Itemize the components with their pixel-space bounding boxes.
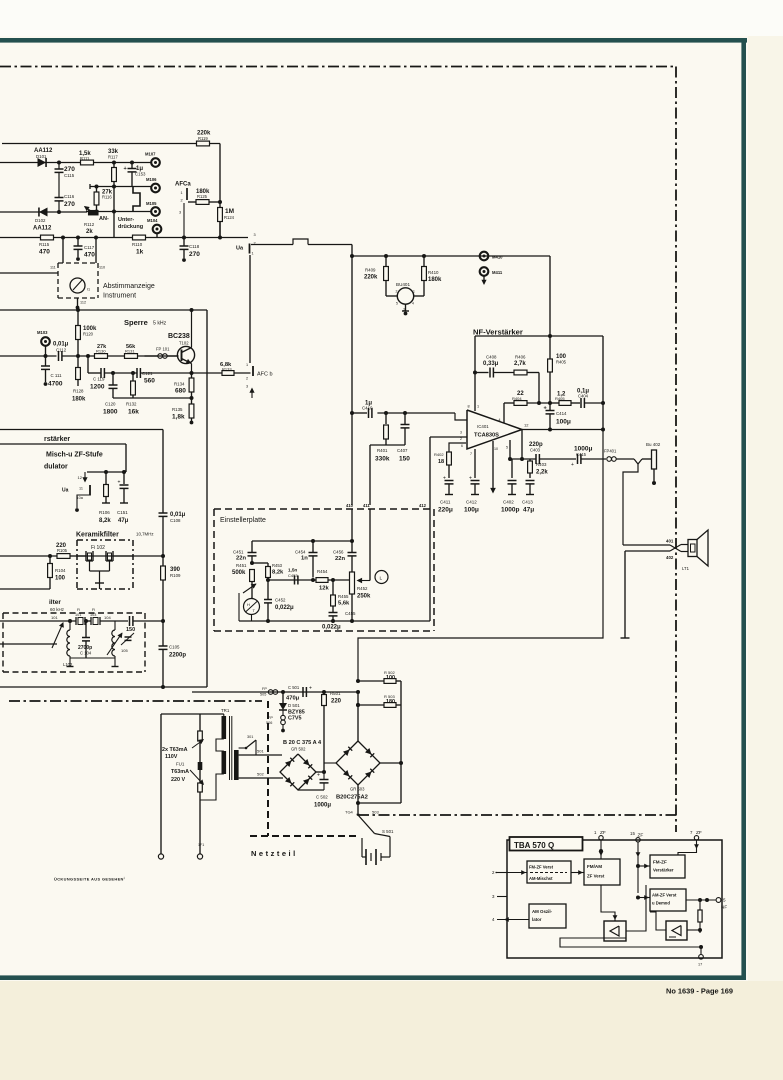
svg-text:R405: R405 — [555, 396, 565, 401]
svg-text:180k: 180k — [72, 397, 86, 403]
wire x401 column — [399, 681, 403, 803]
svg-text:FP401: FP401 — [604, 449, 617, 454]
svg-text:Ua: Ua — [62, 488, 69, 494]
wire top inner rail — [252, 539, 352, 543]
wire AM bottom — [70, 657, 115, 659]
svg-text:C 119: C 119 — [93, 377, 105, 382]
wire output coupling row — [510, 458, 536, 460]
svg-text:B20C275A2: B20C275A2 — [336, 795, 368, 801]
wire AFC row — [188, 201, 196, 203]
connector Ua lower — [62, 485, 90, 500]
svg-text:TG4: TG4 — [345, 810, 354, 815]
svg-text:220 V: 220 V — [171, 777, 185, 783]
resistor R403 — [528, 459, 549, 478]
wire AM row2 in — [0, 643, 57, 645]
resistor R131 — [125, 344, 138, 358]
wire NF input column x352 — [351, 245, 353, 506]
svg-text:1,8k: 1,8k — [172, 414, 185, 421]
pin 4 — [492, 917, 529, 922]
capacitor C111 — [41, 356, 63, 388]
svg-text:501: 501 — [257, 749, 264, 754]
svg-text:105: 105 — [121, 648, 128, 653]
capacitor C117 — [74, 238, 96, 261]
svg-text:L102: L102 — [63, 662, 73, 667]
wire feedback row B — [113, 397, 192, 399]
resistor R503 — [384, 694, 401, 707]
TBA570 title box — [510, 837, 583, 851]
resistor R134 — [174, 373, 194, 398]
capacitor C411 — [438, 476, 454, 514]
wire pin 5 NF — [686, 898, 727, 910]
svg-text:GR 502: GR 502 — [291, 747, 306, 752]
capacitor C456 — [333, 550, 357, 573]
capacitor C454 — [295, 541, 318, 578]
svg-text:R453: R453 — [272, 563, 283, 568]
wire left diode row — [0, 211, 87, 213]
wire pin6 stub — [449, 443, 466, 452]
circle L marker — [375, 571, 388, 584]
limiter block B — [666, 921, 687, 940]
wire limiter A out — [626, 885, 646, 931]
wire y803 — [358, 802, 401, 804]
svg-text:FM-ZF: FM-ZF — [653, 860, 667, 865]
svg-text:100μ: 100μ — [556, 419, 571, 426]
node C153 top — [130, 161, 134, 165]
capacitor C153 — [124, 163, 147, 187]
svg-text:C456: C456 — [333, 550, 344, 555]
svg-text:Fi: Fi — [92, 608, 95, 612]
block FM AM ZF Verst — [584, 859, 620, 885]
node R120 top — [76, 308, 80, 312]
svg-text:dulator: dulator — [44, 464, 68, 471]
resistor R133 — [220, 362, 251, 375]
svg-text:Misch-u ZF-Stufe: Misch-u ZF-Stufe — [46, 452, 103, 459]
resistor R401 — [375, 413, 390, 463]
fuse FU1 body — [198, 762, 203, 770]
svg-text:6: 6 — [461, 444, 463, 448]
svg-text:1: 1 — [413, 290, 415, 294]
misch box top — [0, 444, 126, 472]
svg-text:4: 4 — [412, 302, 414, 306]
svg-text:C453: C453 — [288, 573, 298, 578]
wire speaker feed 401 — [623, 545, 681, 552]
svg-text:C118: C118 — [189, 244, 200, 249]
wire bottom bus — [560, 933, 703, 949]
node rail R404 — [548, 401, 552, 405]
svg-text:2200p: 2200p — [169, 653, 186, 659]
wire output drop — [520, 430, 524, 462]
wire right column R124 — [219, 144, 221, 238]
svg-text:47μ: 47μ — [118, 518, 129, 524]
svg-text:470μ: 470μ — [286, 696, 300, 702]
netzteil dashed boundary bottom — [250, 835, 360, 837]
label dulator — [44, 464, 68, 471]
lamp ground — [402, 304, 409, 315]
svg-text:110: 110 — [99, 266, 105, 270]
svg-text:M106: M106 — [146, 177, 157, 182]
label Abstimmanzeige Instrument — [103, 283, 155, 300]
svg-text:R115: R115 — [39, 242, 50, 247]
svg-text:FP 101: FP 101 — [156, 347, 170, 352]
svg-text:C402: C402 — [503, 500, 514, 505]
node C118 — [182, 236, 186, 240]
svg-text:AM Oszil-: AM Oszil- — [532, 909, 553, 914]
transformer secondary winding — [234, 750, 239, 780]
svg-text:C455: C455 — [345, 611, 356, 616]
svg-text:C116: C116 — [64, 194, 75, 199]
svg-text:R131: R131 — [125, 348, 135, 353]
svg-text:2: 2 — [396, 290, 398, 294]
capacitor C118 — [180, 238, 201, 262]
transformer primary winding — [222, 716, 227, 774]
resistor R409 — [364, 256, 388, 296]
svg-text:220μ: 220μ — [438, 507, 453, 514]
chassis dash-dot boundary lower — [358, 814, 676, 816]
svg-text:L: L — [380, 576, 383, 582]
labels pins 410 411 412 — [346, 503, 427, 508]
ferrite bead FP101 — [145, 347, 179, 359]
svg-text:C408: C408 — [486, 355, 497, 360]
svg-text:330k: 330k — [375, 456, 390, 463]
svg-text:111: 111 — [50, 266, 56, 270]
block FM-ZF Verstaerker — [650, 855, 685, 878]
svg-text:R404: R404 — [512, 396, 522, 401]
potentiometer R112 — [84, 206, 98, 235]
capacitor C403 — [529, 442, 576, 464]
AM filter dashed box — [3, 613, 145, 672]
svg-text:R454: R454 — [317, 569, 328, 574]
misch box pin row — [87, 471, 126, 473]
wire 220k top rail — [2, 143, 220, 145]
label Einstellerplatte — [220, 517, 266, 524]
svg-text:R133: R133 — [222, 367, 232, 372]
svg-text:Einstellerplatte: Einstellerplatte — [220, 517, 266, 524]
netzteil dashed boundary vertical — [267, 701, 269, 836]
label 101 104 — [51, 615, 111, 620]
label meter pins — [50, 266, 105, 305]
capacitor C112 — [53, 342, 179, 362]
lamp BU401 — [386, 282, 424, 312]
wire into meter box — [0, 272, 58, 274]
filter Fi102 common — [90, 571, 110, 589]
capacitor C451 — [233, 541, 257, 563]
svg-text:FP: FP — [268, 716, 273, 720]
resistor internal — [698, 898, 702, 933]
svg-text:0,022μ: 0,022μ — [275, 605, 294, 611]
svg-text:C 502: C 502 — [316, 795, 328, 800]
wire Ua pin2 to NF input — [251, 239, 352, 245]
wire speaker feed 402 — [625, 545, 688, 552]
capacitor C121 — [137, 368, 155, 385]
wire 412 column — [429, 437, 431, 621]
svg-text:u Demod: u Demod — [652, 901, 670, 906]
svg-text:D101: D101 — [36, 154, 47, 159]
wire suppression lower row — [86, 211, 152, 213]
fuse F1 — [198, 731, 203, 741]
svg-text:M410: M410 — [492, 255, 503, 260]
svg-text:1: 1 — [477, 405, 479, 409]
resistor R410 — [422, 256, 442, 296]
svg-text:15: 15 — [630, 831, 635, 836]
TBA bottom pin — [698, 947, 703, 967]
svg-text:NF: NF — [721, 905, 727, 910]
svg-text:150: 150 — [399, 456, 410, 463]
svg-text:2k: 2k — [86, 229, 93, 235]
resistor R116 — [94, 187, 113, 212]
resistor R119 — [197, 131, 212, 146]
resistor R453 — [266, 563, 284, 580]
pin 1 ZF — [594, 830, 606, 856]
svg-text:AM-ZF Verst: AM-ZF Verst — [652, 893, 677, 898]
svg-text:R410: R410 — [428, 270, 439, 275]
svg-text:5 kHz: 5 kHz — [153, 321, 167, 327]
resistor R455 — [331, 580, 350, 612]
svg-text:411: 411 — [363, 503, 370, 508]
svg-text:505: 505 — [260, 693, 266, 697]
svg-text:Abstimmanzeige: Abstimmanzeige — [103, 283, 155, 290]
svg-text:+: + — [317, 773, 320, 779]
test point M411 — [480, 267, 503, 285]
svg-text:100: 100 — [386, 675, 395, 681]
svg-text:R125: R125 — [197, 194, 208, 199]
resistor R402 — [434, 452, 451, 478]
svg-text:R119: R119 — [198, 136, 208, 141]
svg-text:1: 1 — [246, 363, 248, 367]
svg-text:17: 17 — [698, 963, 702, 967]
wire pin8 column — [473, 336, 477, 411]
op-amp IC401 TCA830S — [460, 405, 529, 457]
capacitor C151 — [117, 472, 129, 524]
TBA570 outer box — [507, 840, 722, 958]
svg-text:110V: 110V — [165, 754, 178, 760]
svg-text:C411: C411 — [440, 500, 451, 505]
svg-text:270: 270 — [64, 166, 75, 173]
svg-text:T102: T102 — [179, 341, 189, 346]
svg-text:R401: R401 — [377, 448, 388, 453]
svg-text:D 501: D 501 — [288, 703, 300, 708]
node R409 top — [384, 254, 388, 258]
chassis dash-dot boundary mains — [9, 700, 262, 702]
svg-text:402: 402 — [666, 555, 674, 560]
svg-text:R409: R409 — [365, 268, 376, 273]
meter ground — [76, 298, 80, 309]
svg-text:H: H — [247, 602, 250, 607]
block AM Oszillator — [529, 904, 566, 928]
svg-text:Verstärker: Verstärker — [653, 868, 674, 873]
wire pin5 stub — [508, 440, 512, 461]
svg-text:C105: C105 — [169, 645, 180, 650]
wire detector top row — [0, 162, 151, 164]
svg-text:M411: M411 — [492, 270, 503, 275]
svg-text:M107: M107 — [145, 152, 156, 157]
svg-text:112: 112 — [80, 301, 86, 305]
wire meter pin 110 — [94, 236, 98, 264]
wire R401 C407 bottoms — [370, 444, 405, 446]
wire y589 row — [0, 588, 50, 590]
label NF-Verstaerker — [473, 328, 523, 337]
svg-text:LT1: LT1 — [682, 566, 690, 571]
svg-text:18: 18 — [438, 459, 444, 465]
svg-text:C 111: C 111 — [51, 373, 63, 378]
label filter 60kHz — [49, 599, 65, 612]
svg-text:180k: 180k — [428, 277, 442, 283]
wire into AM-ZF — [636, 893, 650, 900]
svg-text:R134: R134 — [174, 382, 185, 387]
capacitor C502 — [314, 763, 331, 809]
ferrite bead FP401 — [604, 449, 634, 462]
svg-text:AFCa: AFCa — [175, 182, 191, 188]
svg-text:ilter: ilter — [49, 599, 61, 606]
svg-text:5: 5 — [506, 446, 508, 450]
svg-text:C 501: C 501 — [288, 685, 300, 690]
wire GR503 bottom — [356, 785, 360, 813]
filter Fi103 — [85, 608, 100, 625]
resistor R105 — [56, 543, 86, 558]
svg-text:C413: C413 — [522, 500, 533, 505]
circle H T marker — [244, 599, 260, 615]
label verstaerker — [44, 436, 70, 443]
svg-text:8,2k: 8,2k — [272, 570, 284, 576]
wire 7ZF link — [678, 851, 697, 855]
svg-text:500k: 500k — [232, 570, 246, 576]
svg-text:1800: 1800 — [103, 409, 118, 416]
svg-text:4700: 4700 — [48, 381, 63, 388]
svg-text:R455: R455 — [338, 594, 349, 599]
svg-text:BU401: BU401 — [396, 282, 410, 287]
resistor R132 — [126, 371, 139, 416]
wire bridge plus — [316, 770, 326, 774]
svg-text:C407: C407 — [397, 448, 408, 453]
node base join — [86, 354, 90, 358]
svg-text:180: 180 — [386, 699, 395, 705]
svg-text:401: 401 — [666, 539, 674, 544]
svg-text:C415: C415 — [576, 452, 587, 457]
svg-text:12: 12 — [78, 475, 83, 480]
resistor R404 — [512, 391, 550, 405]
svg-text:3: 3 — [460, 431, 462, 435]
wire AM mid — [100, 620, 128, 622]
svg-text:7: 7 — [470, 452, 472, 456]
svg-text:C120: C120 — [105, 402, 116, 407]
svg-text:470: 470 — [39, 249, 50, 256]
pin 12 arrow — [78, 472, 88, 483]
wire supply row y256 — [352, 255, 550, 257]
page number text — [666, 987, 733, 996]
svg-text:R106: R106 — [99, 510, 110, 515]
svg-text:3: 3 — [254, 233, 256, 237]
capacitor C410 — [350, 401, 373, 419]
resistor R454 — [316, 569, 329, 592]
svg-text:410: 410 — [346, 503, 354, 508]
svg-text:R403: R403 — [536, 462, 547, 467]
node R501 top — [322, 690, 326, 694]
svg-text:ÜCKUNGSSEITE AUS GESEHENⁱ: ÜCKUNGSSEITE AUS GESEHENⁱ — [54, 875, 125, 882]
node D102 C116 — [57, 210, 61, 214]
resistor R405 vertical 100 — [548, 336, 567, 403]
svg-text:R110: R110 — [132, 242, 143, 247]
svg-text:C7V5: C7V5 — [288, 716, 302, 722]
svg-text:R109: R109 — [170, 573, 181, 578]
svg-text:R120: R120 — [83, 332, 94, 337]
node R106 top — [104, 470, 108, 474]
svg-text:C117: C117 — [84, 245, 95, 250]
potentiometer R452 — [350, 572, 372, 621]
resistor R106 — [99, 472, 111, 524]
wire mains top — [161, 714, 224, 716]
bridge rectifier GR503 — [336, 741, 380, 801]
svg-text:R112: R112 — [84, 222, 95, 227]
wire op-amp input row — [377, 413, 467, 420]
wire NF top rail — [475, 335, 603, 337]
svg-text:C151: C151 — [117, 510, 128, 515]
resistor R406 — [514, 355, 539, 375]
capacitor C414 — [544, 403, 571, 430]
wire output row y430 — [522, 428, 605, 432]
resistor R125 — [196, 189, 222, 204]
pin 2 — [492, 870, 507, 875]
capacitor AM coupling — [130, 616, 166, 626]
svg-text:R105: R105 — [57, 548, 68, 553]
svg-text:AA112: AA112 — [33, 226, 52, 232]
capacitor C501 — [286, 685, 312, 702]
transformer taps — [216, 739, 224, 751]
transistor T102 BC238 — [168, 310, 195, 373]
svg-text:TCA830S: TCA830S — [474, 433, 499, 439]
capacitor C404 — [577, 389, 605, 409]
node C151 top — [122, 470, 126, 474]
svg-text:250k: 250k — [357, 594, 371, 600]
capacitor C116 — [55, 194, 76, 212]
svg-text:1F1: 1F1 — [198, 843, 204, 847]
svg-text:rstärker: rstärker — [44, 436, 70, 443]
capacitor C412 — [464, 449, 480, 514]
wire feedback row A — [88, 372, 192, 374]
chassis dash-dot boundary right — [675, 67, 677, 833]
svg-text:R130: R130 — [96, 348, 106, 353]
resistor R502 — [384, 670, 401, 683]
svg-text:506: 506 — [266, 721, 272, 725]
capacitor C452 — [264, 580, 294, 621]
svg-text:12: 12 — [524, 423, 529, 428]
svg-text:22n: 22n — [335, 556, 345, 562]
switch 301 — [239, 735, 256, 755]
svg-text:FP: FP — [262, 687, 267, 691]
label fuses 110V — [162, 739, 204, 785]
svg-text:560: 560 — [144, 378, 155, 385]
filter Fi102 element B — [106, 551, 113, 571]
svg-text:C115: C115 — [64, 173, 75, 178]
svg-text:C452: C452 — [275, 598, 286, 603]
svg-text:10: 10 — [494, 447, 498, 451]
wire emitter to AFC — [192, 372, 222, 374]
pin 3 — [492, 894, 507, 899]
mains terminal left — [158, 854, 163, 859]
wire R117 column down — [113, 187, 115, 238]
wire keramik out — [113, 554, 165, 558]
wire Ua to AFCb pin1 — [249, 255, 251, 363]
wire meter pin 111 — [61, 236, 65, 264]
svg-text:100μ: 100μ — [464, 507, 479, 514]
svg-text:lator: lator — [532, 917, 542, 922]
switch contact AM suppression — [133, 187, 140, 212]
svg-text:R406: R406 — [515, 355, 526, 360]
svg-text:C 104: C 104 — [80, 651, 92, 656]
svg-text:47μ: 47μ — [523, 507, 534, 514]
bridge rectifier GR502 — [280, 740, 322, 790]
jack contact — [634, 459, 652, 464]
wire mid rail — [266, 578, 350, 582]
connector Ua — [236, 233, 256, 256]
